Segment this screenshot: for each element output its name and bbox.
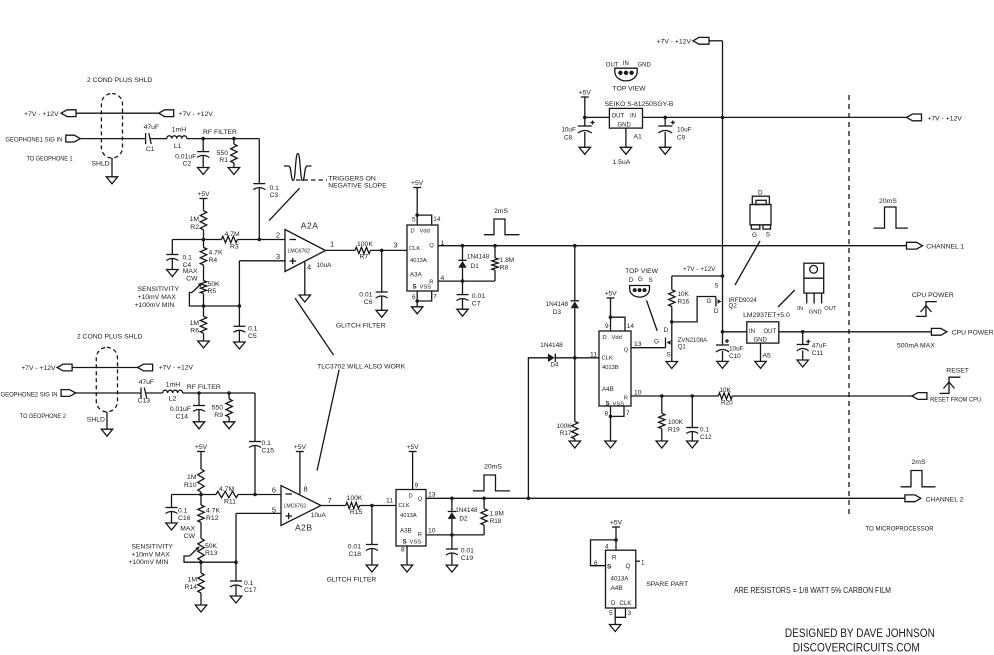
svg-text:GND: GND [754,337,768,343]
svg-text:Vdd: Vdd [612,335,622,341]
resistor R8 1.8M [492,246,514,281]
svg-text:C11: C11 [812,350,824,357]
capacitor C1 47uF [144,124,160,153]
power +5V at A1 output [579,90,592,118]
connector GEOPHONE2 SIG IN [61,390,76,397]
svg-text:3: 3 [276,252,280,261]
annotation IRFD9024 package top view [750,189,771,239]
svg-text:CPU POWER: CPU POWER [912,292,954,299]
ground spare A4B [610,625,621,632]
capacitor C7 0.01 [457,281,486,309]
svg-text:A3B: A3B [400,528,412,535]
capacitor C10 10uF [716,332,744,362]
diode D4 1N4148 [528,342,574,498]
wire Q2 drain to node [721,308,725,334]
svg-text:Q: Q [624,347,629,353]
svg-text:R7: R7 [360,254,369,261]
svg-text:7: 7 [626,410,630,417]
ground C12 [687,441,698,448]
svg-text:RESET FROM CPU: RESET FROM CPU [930,396,981,403]
resistor R6 1M [190,306,207,341]
ground R1 [228,168,239,175]
svg-text:4.7K: 4.7K [209,250,223,257]
svg-text:14: 14 [433,216,441,223]
svg-text:C19: C19 [461,555,474,562]
wire CPU POWER net [779,330,932,334]
svg-text:D: D [629,277,634,284]
node input cable 2 label [77,334,142,341]
svg-text:C12: C12 [700,434,712,441]
svg-text:DESIGNED BY DAVE JOHNSON: DESIGNED BY DAVE JOHNSON [785,626,935,640]
svg-text:IN: IN [797,306,803,312]
annotation pointer to A2B [317,370,339,471]
wire shield 1 [92,158,113,177]
svg-text:C3: C3 [270,192,279,199]
svg-text:R11: R11 [224,499,236,506]
svg-text:DISCOVERCIRCUITS.COM: DISCOVERCIRCUITS.COM [793,641,920,655]
svg-text:R: R [624,395,628,401]
svg-text:6: 6 [272,486,276,495]
shielded cable CH1 [101,94,122,159]
wire L2 to corner RF FILTER 2 [183,384,255,395]
svg-text:C10: C10 [729,353,741,360]
connector J1A +7V-+12V left [61,110,76,117]
svg-text:CLK: CLK [620,600,633,607]
regulator A1 SEIKO S-81250SGY-B [605,101,674,166]
svg-text:A3A: A3A [410,272,423,279]
annotation resistor note [734,586,891,595]
svg-text:100K: 100K [347,495,363,502]
connector CPU POWER [897,328,994,349]
svg-text:TO MICROPROCESSOR: TO MICROPROCESSOR [866,525,934,532]
svg-text:1: 1 [330,240,334,249]
svg-text:0.01: 0.01 [359,292,372,299]
annotation GLITCH FILTER CH1 [336,322,386,329]
wire CHANNEL 2 net [426,497,905,501]
svg-text:4: 4 [605,544,609,551]
resistor R1 550 [217,139,237,168]
svg-text:GLITCH FILTER: GLITCH FILTER [336,322,386,329]
wire C3 to inverting input node [258,188,260,240]
connector GEOPHONE1 SIG IN [66,135,81,142]
svg-text:MAX: MAX [183,268,198,275]
ground C5 [234,342,245,349]
ground C17 [230,596,241,603]
svg-text:2mS: 2mS [912,459,926,466]
svg-text:0.01uF: 0.01uF [175,154,196,161]
svg-text:R4: R4 [209,257,218,264]
svg-text:GEOPHONE1 SIG IN: GEOPHONE1 SIG IN [5,137,62,144]
svg-text:R10: R10 [184,482,197,489]
svg-text:0.01: 0.01 [472,293,485,300]
svg-text:SHLD: SHLD [92,161,110,168]
shielded cable CH2 [96,347,117,411]
svg-text:4013A: 4013A [410,258,427,264]
ground A3A [412,307,423,314]
ground R14 [195,605,206,612]
annotation GLITCH FILTER CH2 [327,577,377,584]
diode D3 1N4148 [546,246,579,360]
svg-text:7: 7 [328,496,332,505]
flip-flop U-A4B 4013B [590,315,642,441]
inductor L1 1mH [167,127,187,150]
svg-text:C8: C8 [564,135,573,142]
wire pin3 net [239,261,285,306]
svg-text:GLITCH FILTER: GLITCH FILTER [327,577,377,584]
svg-text:3: 3 [393,241,397,250]
wire R5 wiper loop [189,293,241,308]
svg-text:S: S [606,400,610,407]
svg-text:D: D [409,494,413,500]
ground C9 [660,147,671,154]
svg-text:550: 550 [217,150,229,157]
node input cable 1 label [87,77,152,84]
svg-text:SEIKO S-81250SGY-B: SEIKO S-81250SGY-B [605,101,674,108]
svg-text:C15: C15 [262,447,275,454]
svg-text:10uF: 10uF [729,346,744,353]
svg-text:1M: 1M [187,474,197,481]
svg-text:MAX: MAX [180,526,195,533]
svg-text:Q: Q [626,563,631,570]
svg-text:+5V: +5V [406,444,419,451]
svg-text:CW: CW [186,276,198,283]
connector J2B +7V-+12V right [138,364,153,371]
wire geophone2 to C13 [76,392,141,394]
svg-text:50K: 50K [208,281,221,288]
op-amp A2A LMC6762 [276,221,334,272]
svg-text:100K: 100K [557,423,573,430]
svg-text:D: D [611,600,616,607]
diode D2 1N4148 [448,498,478,535]
svg-text:OUT: OUT [606,62,619,68]
svg-text:47uF: 47uF [812,343,827,350]
svg-text:IN: IN [623,61,629,67]
svg-text:13: 13 [634,341,642,348]
svg-text:5: 5 [272,505,276,514]
ground C14 [193,422,204,429]
separator dashed line [848,95,850,516]
node TO-92 Q1 top view [625,268,659,297]
svg-text:CPU POWER: CPU POWER [952,330,994,337]
flip-flop U-A3B 4013A [396,483,436,566]
svg-text:C7: C7 [472,300,481,307]
svg-text:OUT: OUT [612,114,625,120]
svg-text:4013A: 4013A [400,513,417,519]
annotation pointer to A2A [295,298,334,355]
ground C16 [166,523,177,530]
annotation CPU POWER icon [912,292,954,317]
svg-text:14: 14 [627,323,635,330]
wire R16 to +7V rail [672,266,725,278]
capacitor C19 0.01 [446,535,474,565]
svg-text:GND: GND [618,122,632,128]
ground Q1 [666,362,677,369]
svg-text:G: G [752,232,757,239]
svg-text:7: 7 [433,294,437,301]
svg-text:+5V: +5V [197,191,210,198]
ground R17 [569,441,580,448]
svg-text:TRIGGERS ON: TRIGGERS ON [328,175,376,182]
svg-text:A2A: A2A [301,221,319,231]
svg-text:4.7M: 4.7M [225,231,240,238]
ground C19 [446,565,457,572]
svg-text:VSS: VSS [420,284,432,290]
svg-text:L2: L2 [169,395,177,402]
svg-text:Q2: Q2 [729,302,738,309]
annotation LM2937 TO-220 package [797,263,837,315]
power +5V for A2B [294,444,307,494]
svg-text:SPARE PART: SPARE PART [646,581,688,588]
svg-text:VSS: VSS [410,540,422,546]
svg-text:1N4148: 1N4148 [455,507,478,514]
svg-text:TOP VIEW: TOP VIEW [625,268,659,275]
node aux power CH1 labels [24,111,213,118]
svg-text:+100mV MIN: +100mV MIN [129,559,169,566]
svg-text:0.1: 0.1 [270,185,280,192]
svg-text:+5V: +5V [604,291,617,298]
svg-text:D1: D1 [471,263,480,270]
svg-text:1M: 1M [190,320,200,327]
svg-text:S: S [649,277,653,284]
svg-text:4013B: 4013B [602,365,619,371]
wire aux CH2 [72,367,138,369]
svg-text:VSS: VSS [613,401,625,407]
node aux power CH2 labels [21,365,193,373]
node SENSITIVITY label [135,286,180,309]
svg-text:47uF: 47uF [139,379,155,386]
svg-text:10uA: 10uA [317,262,333,269]
svg-text:8: 8 [401,547,405,554]
svg-text:10uF: 10uF [561,127,576,134]
svg-text:1.8M: 1.8M [490,511,504,518]
wire Q1 source to ground [671,348,673,361]
svg-text:R5: R5 [208,288,217,295]
capacitor C11 47uF [797,332,827,360]
svg-text:6: 6 [594,560,598,567]
svg-text:L1: L1 [174,143,182,150]
svg-text:R: R [418,532,422,538]
svg-text:R18: R18 [490,518,502,525]
svg-text:OUT: OUT [764,329,777,335]
svg-text:R15: R15 [350,509,363,516]
svg-text:Q: Q [429,243,434,249]
svg-text:10: 10 [428,528,436,535]
wire A3B reset pin10 [426,533,484,537]
svg-text:RESET: RESET [946,368,969,375]
annotation dashed pointer [296,179,327,181]
annotation TLC3702 note [317,364,406,371]
svg-text:2 COND PLUS SHLD: 2 COND PLUS SHLD [77,334,142,341]
svg-text:5: 5 [609,610,613,617]
annotation pointer TO-92 to Q1 [647,300,658,331]
svg-text:G: G [638,276,643,283]
svg-text:1N4148: 1N4148 [546,301,569,308]
annotation SPARE PART [646,581,688,588]
svg-text:R9: R9 [214,412,223,419]
connector CHANNEL 2 [905,495,964,503]
capacitor C15 0.1 [249,440,274,454]
annotation credit line 2 [793,641,920,655]
inductor L2 1mH [163,382,183,403]
svg-text:1.5uA: 1.5uA [613,159,631,166]
svg-text:SENSITIVITY: SENSITIVITY [138,286,180,293]
capacitor C14 0.01uF [170,393,205,422]
svg-text:Vdd: Vdd [420,229,430,235]
wire A4B Q pin13 to Q1 gate [631,339,666,348]
svg-text:4013A: 4013A [611,576,630,583]
svg-text:RF FILTER: RF FILTER [187,384,221,391]
ground C7 [457,309,468,316]
annotation 2mS pulse CH1 [484,208,520,235]
ground shield 1 [106,177,117,184]
wire A5 IN [723,331,747,333]
capacitor C8 10uF [561,117,594,147]
svg-text:R14: R14 [185,584,198,591]
svg-text:CLK: CLK [602,355,613,361]
transistor Q2 IRFD9024 [707,283,758,316]
svg-text:D: D [411,229,415,235]
svg-text:A5: A5 [763,353,772,360]
svg-text:+5V: +5V [579,90,592,97]
resistor R14 1M [185,562,205,605]
annotation 20mS pulse CH1 out [874,198,908,228]
svg-text:10K: 10K [678,291,690,298]
svg-text:D3: D3 [553,309,562,316]
svg-text:LM2937ET+5.0: LM2937ET+5.0 [743,312,790,319]
resistor R18 1.8M [481,498,504,535]
svg-text:D4: D4 [550,361,559,368]
ground C10 [717,361,728,368]
wire A2B output [321,498,396,508]
ground A3B [401,565,412,572]
svg-text:3: 3 [628,610,632,617]
svg-text:+10mV MAX: +10mV MAX [138,294,177,301]
svg-text:0.1: 0.1 [700,427,709,434]
power +5V for A3A [411,180,424,215]
annotation credit line 1 [785,626,935,640]
annotation RESET icon [940,368,969,394]
wire C15 to pin6 node [254,446,256,495]
svg-text:+10mV MAX: +10mV MAX [131,551,170,558]
svg-text:+7V - +12V: +7V - +12V [179,111,214,118]
resistor R19 100K [659,396,684,441]
svg-text:+5V: +5V [294,444,307,451]
svg-text:TO GEOPHONE 2: TO GEOPHONE 2 [20,413,66,420]
svg-text:S: S [667,352,671,359]
capacitor C6 0.01 [359,250,387,310]
resistor R9 550 [212,393,233,422]
svg-text:GND: GND [809,309,822,315]
svg-text:C17: C17 [244,587,257,594]
svg-text:+5V: +5V [411,180,424,187]
capacitor C17 0.1 [230,562,257,596]
svg-text:C1: C1 [146,146,155,153]
svg-text:0.1: 0.1 [262,440,272,447]
capacitor C2 0.01uF [175,139,209,168]
wire RESET net [631,394,912,398]
power +5V for R2 [197,191,210,199]
wire pin6 net horizontal [172,493,282,497]
resistor R16 10K [669,276,690,322]
svg-text:RF FILTER: RF FILTER [203,129,237,136]
svg-text:1N4148: 1N4148 [540,342,563,349]
svg-text:1M: 1M [190,216,200,223]
resistor R11 4.7M [216,486,238,506]
resistor R15 100K [346,495,363,516]
annotation pointer line to input node [269,188,300,220]
svg-text:C18: C18 [349,551,362,558]
svg-text:A2B: A2B [295,523,313,533]
flip-flop spare 4013A A4B [591,540,646,625]
wire C13 to L2 [146,392,163,394]
svg-text:2: 2 [276,231,280,240]
resistor R2 1M [190,199,207,240]
svg-text:1mH: 1mH [166,382,180,389]
wire pin2 net horizontal [172,238,285,242]
node GEOPHONE1 SIG IN label [5,137,72,163]
svg-text:R8: R8 [500,265,509,272]
svg-text:10uA: 10uA [311,512,327,519]
wire A2A pin4 to ground [304,262,306,295]
svg-text:47uF: 47uF [144,124,160,131]
svg-text:IN: IN [630,114,636,120]
svg-text:R19: R19 [668,426,680,433]
svg-text:0.01: 0.01 [461,548,474,555]
svg-text:SENSITIVITY: SENSITIVITY [131,543,173,550]
svg-text:ZVN2108A: ZVN2108A [678,338,707,344]
svg-text:G: G [654,339,659,346]
svg-text:500mA MAX: 500mA MAX [897,342,935,349]
svg-text:D: D [758,189,763,196]
svg-text:Q1: Q1 [678,344,687,350]
node GEOPHONE2 SIG IN label [1,391,66,420]
svg-text:+7V - +12V: +7V - +12V [21,365,56,372]
svg-text:+100mV MIN: +100mV MIN [135,302,175,309]
svg-text:TLC3702 WILL ALSO WORK: TLC3702 WILL ALSO WORK [317,364,406,371]
regulator A5 LM2937ET+5.0 [743,312,790,359]
svg-text:11: 11 [386,498,393,505]
capacitor C9 10uF [658,117,691,147]
ground R6 [198,341,209,348]
ground C8 [579,147,590,154]
svg-text:D: D [664,327,669,334]
svg-text:+7V - +12V: +7V - +12V [927,116,962,123]
wire geophone1 to C1 [80,138,145,140]
wire A1 OUT [583,116,609,120]
annotation TRIGGERS ON NEGATIVE SLOPE [328,175,387,189]
potentiometer R5 50K [192,281,220,295]
connector +7V-+12V top [657,37,709,45]
wire +7V rail [643,116,907,120]
annotation pointer package to A5 [778,290,795,307]
resistor R3 4.7M [222,231,240,251]
svg-text:+5V: +5V [610,520,623,527]
svg-text:C16: C16 [178,515,191,522]
potentiometer R13 50K [190,538,218,560]
svg-text:1: 1 [641,559,645,566]
svg-text:SHLD: SHLD [87,417,105,424]
svg-text:R: R [612,555,617,562]
svg-text:50K: 50K [205,543,218,550]
svg-text:C13: C13 [138,397,151,404]
svg-text:R1: R1 [219,157,228,164]
wire aux CH1 [76,112,159,114]
svg-text:R3: R3 [230,244,239,251]
resistor R17 100K [557,358,578,441]
capacitor C4 0.1 [166,240,192,270]
svg-text:0.1: 0.1 [183,255,193,262]
svg-text:+7V - +12V: +7V - +12V [24,111,59,118]
